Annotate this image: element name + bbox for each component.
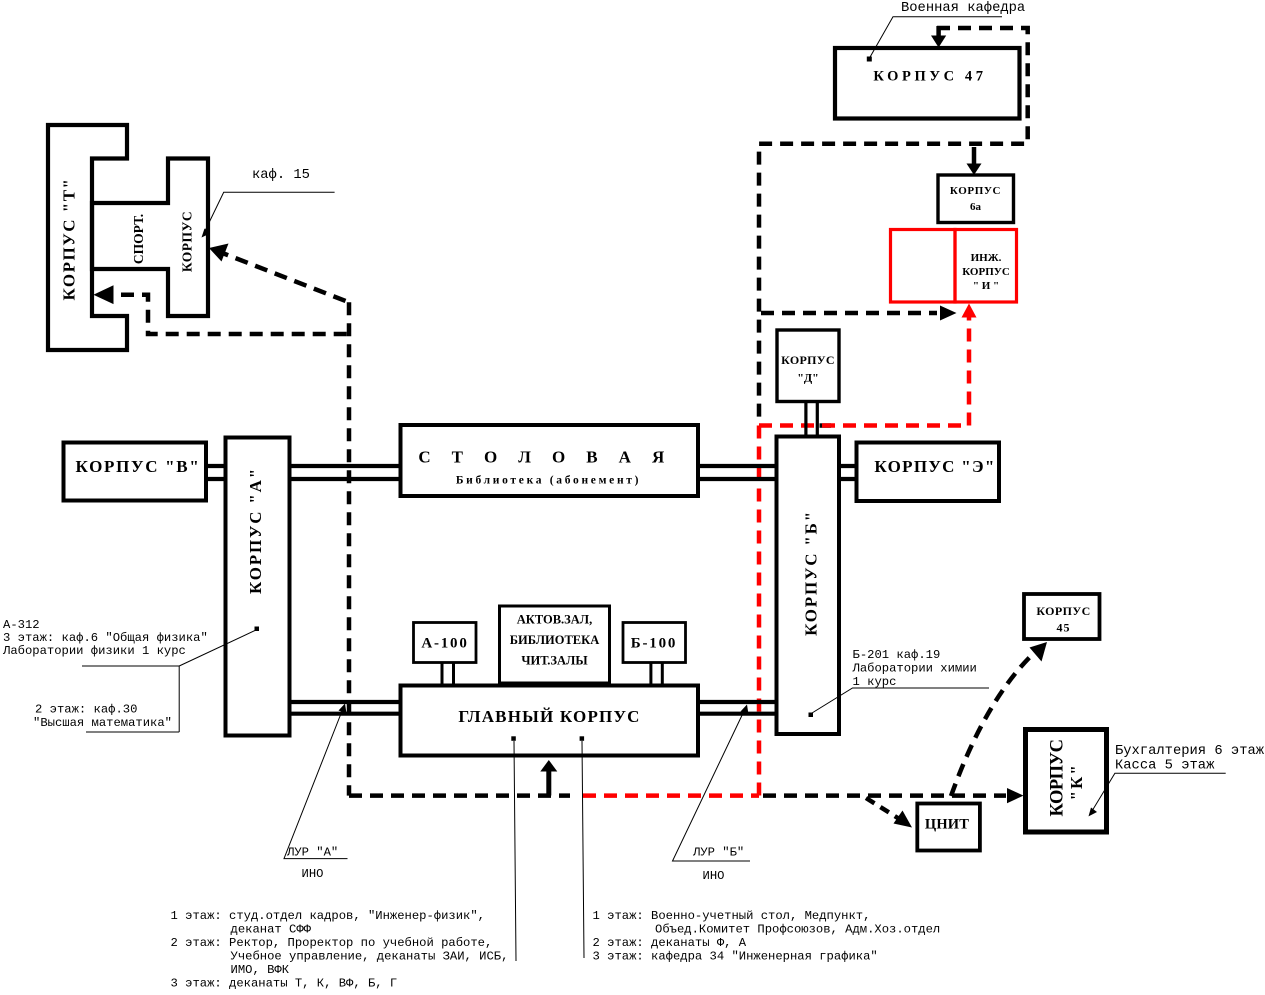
svg-text:Военная кафедра: Военная кафедра [901,0,1025,16]
arrowhead into КОРПУС Т [93,285,113,304]
dashed branch to red building [761,311,937,316]
building КОРПУС "В" [64,443,207,501]
svg-text:БИБЛИОТЕКА: БИБЛИОТЕКА [510,633,599,647]
svg-text:Бухгалтерия 6 этаж: Бухгалтерия 6 этаж [1115,744,1265,759]
svg-text:Учебное управление, деканаты З: Учебное управление, деканаты ЗАИ, ИСБ, [231,950,509,964]
double corridor ГЛАВНЫЙ КОРПУС to Б [698,702,777,714]
double corridor А to СТОЛОВАЯ [290,466,401,479]
svg-text:КОРПУС "Э": КОРПУС "Э" [874,457,995,476]
dashed route to КОРПУС Т with corner [100,295,348,334]
svg-text:ЧИТ.ЗАЛЫ: ЧИТ.ЗАЛЫ [521,654,588,668]
building ГЛАВНЫЙ КОРПУС [401,686,699,756]
svg-text:С Т О Л О В А Я: С Т О Л О В А Я [418,448,672,467]
svg-text:Лаборатории химии: Лаборатории химии [852,662,977,676]
solid arrow down into КОРПУС 47 [936,26,941,36]
svg-text:АКТОВ.ЗАЛ,: АКТОВ.ЗАЛ, [517,613,593,627]
svg-text:"К": "К" [1067,763,1086,800]
building КОРПУС "Б" [777,437,840,735]
svg-text:ЦНИТ: ЦНИТ [925,817,969,833]
red dashed horizontal bottom y=795.6 [583,793,759,798]
svg-text:КОРПУС: КОРПУС [180,211,195,272]
double corridor А to ГЛАВНЫЙ КОРПУС [290,702,401,714]
building КОРПУС "Т" outline [48,125,127,350]
svg-text:3 этаж: деканаты Т, К, ВФ, Б,: 3 этаж: деканаты Т, К, ВФ, Б, Г [171,977,398,991]
leader line for Военная кафедра [870,17,1002,58]
svg-text:КОРПУС: КОРПУС [1036,604,1090,618]
arrowhead right at red building [940,306,957,321]
building КОРПУС 6а [938,175,1014,223]
connector Б-100 [651,663,662,686]
red building ИНЖ. КОРПУС "И" [955,230,1017,303]
svg-text:Лаборатории физики 1 курс: Лаборатории физики 1 курс [2,644,186,658]
double corridor СТОЛОВАЯ to Б [698,466,777,479]
svg-text:1 этаж: Военно-учетный стол, М: 1 этаж: Военно-учетный стол, Медпункт, [593,909,871,923]
black dashed bottom right segment [763,793,1006,798]
red dashed vertical x=759 [757,426,762,796]
svg-text:А-100: А-100 [421,636,468,652]
building СТОЛОВАЯ [401,425,699,496]
building КОРПУС "Д" [777,330,839,402]
svg-text:СПОРТ.: СПОРТ. [131,214,146,264]
svg-text:КОРПУС: КОРПУС [1048,740,1068,817]
black dashed bottom left segment [349,793,570,798]
svg-text:2 этаж: каф.30: 2 этаж: каф.30 [35,703,137,717]
svg-text:ЛУР "Б": ЛУР "Б" [692,846,744,860]
svg-text:ГЛАВНЫЙ КОРПУС: ГЛАВНЫЙ КОРПУС [458,707,640,726]
red dashed horizontal y=425 [759,423,969,428]
building Б-100 [623,623,686,663]
double connector Д to Б [806,402,817,437]
svg-text:КОРПУС "Б": КОРПУС "Б" [802,510,821,636]
svg-text:Объед.Комитет Профсоюзов, Адм.: Объед.Комитет Профсоюзов, Адм.Хоз.отдел [655,923,940,937]
red building left block [891,230,956,303]
svg-text:ИНО: ИНО [703,869,725,883]
dashed curved route to КОРПУС 45 [951,651,1036,796]
svg-text:ИНО: ИНО [302,867,324,881]
small arrowhead of каф.15 leader [202,229,211,238]
svg-text:2 этаж: деканаты Ф, А: 2 этаж: деканаты Ф, А [593,936,747,950]
markers on ГЛАВНЫЙ КОРПУС with leader lines down [511,736,516,741]
building КОРПУС 45 [1024,594,1100,639]
svg-text:КОРПУС 47: КОРПУС 47 [873,69,986,85]
svg-text:"Высшая математика": "Высшая математика" [33,716,172,730]
building СПОРТ. КОРПУС outline [92,159,208,317]
arrowhead at СПОРТ. КОРПУС [209,244,229,262]
leader line for каф.15 [205,192,335,232]
svg-text:КОРПУС "Т": КОРПУС "Т" [59,178,78,301]
svg-text:1 курс: 1 курс [853,675,897,689]
solid up arrow under ГЛАВНЫЙ КОРПУС [546,770,551,796]
dashed branch into ЦНИТ [866,798,901,820]
svg-text:45: 45 [1057,621,1071,635]
svg-text:каф. 15: каф. 15 [252,167,310,183]
svg-text:КОРПУС "А": КОРПУС "А" [246,467,265,594]
building ЦНИТ [917,804,980,851]
dashed route vertical x=348 down from diagonal corner [347,302,352,795]
building КОРПУС "К" [1026,730,1107,833]
svg-text:3 этаж: кафедра 34 "Инженерная: 3 этаж: кафедра 34 "Инженерная графика" [593,950,878,964]
svg-text:КОРПУС: КОРПУС [950,185,1001,197]
building КОРПУС "А" [226,438,290,736]
svg-text:1 этаж: студ.отдел кадров, "Ин: 1 этаж: студ.отдел кадров, "Инженер-физи… [171,909,486,923]
top-right dashed path around КОРПУС 47 [759,28,1028,421]
svg-text:ЛУР "А": ЛУР "А" [286,846,338,860]
svg-text:" И ": " И " [973,280,999,292]
building А-100 [414,623,477,663]
red dashed vertical with up arrow into ИНЖ. КОРПУС [967,315,972,426]
svg-text:2 этаж: Ректор, Проректор по у: 2 этаж: Ректор, Проректор по учебной раб… [171,936,493,950]
double corridor В to А [206,466,226,479]
svg-text:КОРПУС: КОРПУС [781,353,835,367]
svg-text:Касса 5 этаж: Касса 5 этаж [1115,759,1215,774]
svg-text:Библиотека (абонемент): Библиотека (абонемент) [456,475,641,487]
svg-text:3 этаж: каф.6 "Общая физика": 3 этаж: каф.6 "Общая физика" [3,631,208,645]
svg-text:Б-100: Б-100 [631,636,677,652]
svg-text:деканат СФФ: деканат СФФ [231,923,312,937]
building АКТОВ.ЗАЛ БИБЛИОТЕКА ЧИТ.ЗАЛЫ [500,606,610,683]
building КОРПУС "Э" [857,443,1000,502]
svg-text:ИНЖ.: ИНЖ. [971,252,1002,264]
svg-text:КОРПУС: КОРПУС [962,266,1010,278]
connector А-100 [442,663,454,686]
leader dot [867,57,872,62]
solid arrow down into КОРПУС 6а [972,147,977,165]
svg-text:"Д": "Д" [797,371,819,385]
leader lines А-312 [82,631,255,733]
svg-text:ИМО, ВФК: ИМО, ВФК [231,963,290,977]
svg-text:КОРПУС "В": КОРПУС "В" [76,457,201,476]
building КОРПУС 47 [835,48,1020,119]
dashed route arrow to СПОРТ. КОРПУС (diagonal) [216,251,349,303]
double corridor lines Б to Э [839,466,857,479]
black dash overlapping red line near Д connector [820,423,832,428]
arrowhead into КОРПУС К [1007,788,1024,803]
svg-text:6а: 6а [970,201,982,213]
svg-text:А-312: А-312 [3,618,40,632]
svg-text:Б-201 каф.19: Б-201 каф.19 [853,648,941,662]
